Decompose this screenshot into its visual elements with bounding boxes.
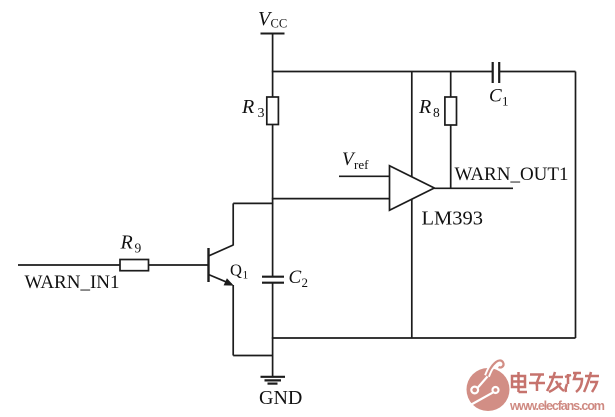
resistor R8 <box>445 97 457 125</box>
wire LM393 supply drop <box>411 72 413 339</box>
wire R3 bottom down to C2 top plate <box>272 125 274 277</box>
char fa <box>549 376 563 379</box>
char you <box>585 375 599 378</box>
wire op-amp output <box>434 187 513 189</box>
label WARN_IN1 <box>25 272 120 293</box>
wire VCC stem to R3 <box>272 34 274 98</box>
capacitor C2 <box>262 277 284 283</box>
svg-text:1: 1 <box>243 270 249 282</box>
char dian <box>512 376 525 387</box>
label WARN_OUT1 <box>455 164 569 185</box>
label GND <box>259 387 302 409</box>
label R3 <box>241 96 265 121</box>
svg-text:ref: ref <box>354 157 369 172</box>
resistor R9 <box>120 260 149 271</box>
wire top rail right of C1 <box>499 71 575 73</box>
svg-text:R: R <box>418 96 431 118</box>
svg-text:GND: GND <box>259 387 302 409</box>
svg-text:CC: CC <box>271 17 288 31</box>
power symbol VCC bar <box>261 33 285 35</box>
wire emitter down <box>232 285 234 356</box>
transistor Q1 <box>209 245 234 286</box>
svg-text:C: C <box>289 267 302 288</box>
wire GND stem <box>272 338 274 377</box>
wire Vref input <box>339 175 390 177</box>
op-amp U1 LM393 <box>390 166 435 211</box>
resistor R3 <box>267 97 279 125</box>
svg-text:2: 2 <box>302 275 309 290</box>
svg-text:Q: Q <box>230 261 242 280</box>
svg-text:LM393: LM393 <box>422 208 484 230</box>
label R9 <box>120 232 142 256</box>
svg-text:R: R <box>120 232 133 254</box>
watermark text dianzifashaoyou <box>512 372 599 392</box>
wire collector branch vertical <box>232 203 234 245</box>
label R8 <box>418 96 440 120</box>
wire R8 bottom lead to output <box>450 125 452 188</box>
wire right rail <box>575 72 577 339</box>
label Vref <box>342 149 369 172</box>
svg-text:WARN_OUT1: WARN_OUT1 <box>455 164 569 185</box>
wire R8 top lead <box>450 72 452 98</box>
label VCC <box>258 8 287 31</box>
svg-text:WARN_IN1: WARN_IN1 <box>25 272 120 293</box>
label C1 <box>489 86 509 109</box>
wire emitter to ground stem <box>233 355 272 357</box>
label Q1 <box>230 261 249 282</box>
svg-text:8: 8 <box>433 105 440 120</box>
svg-text:3: 3 <box>258 106 265 121</box>
wire bottom rail <box>272 337 576 339</box>
svg-text:www.elecfans.com: www.elecfans.com <box>509 399 605 413</box>
svg-text:1: 1 <box>502 94 509 109</box>
svg-text:9: 9 <box>135 241 142 256</box>
label C2 <box>289 267 309 290</box>
svg-text:C: C <box>489 86 502 107</box>
char shao <box>567 374 570 384</box>
svg-text:R: R <box>241 96 254 118</box>
label LM393 <box>422 208 484 230</box>
wire base input right segment <box>149 264 209 266</box>
capacitor C1 <box>493 62 500 83</box>
wire node to op-amp inverting input <box>272 198 390 200</box>
wire base input left segment <box>18 264 120 266</box>
watermark logo elecfans <box>467 360 510 411</box>
ground symbol <box>261 377 286 384</box>
wire C2 bottom to bottom rail <box>272 283 274 338</box>
wire top rail left of C1 <box>272 71 493 73</box>
char zi <box>530 373 544 376</box>
watermark text www.elecfans.com <box>509 399 605 413</box>
wire collector branch horizontal <box>233 202 273 204</box>
